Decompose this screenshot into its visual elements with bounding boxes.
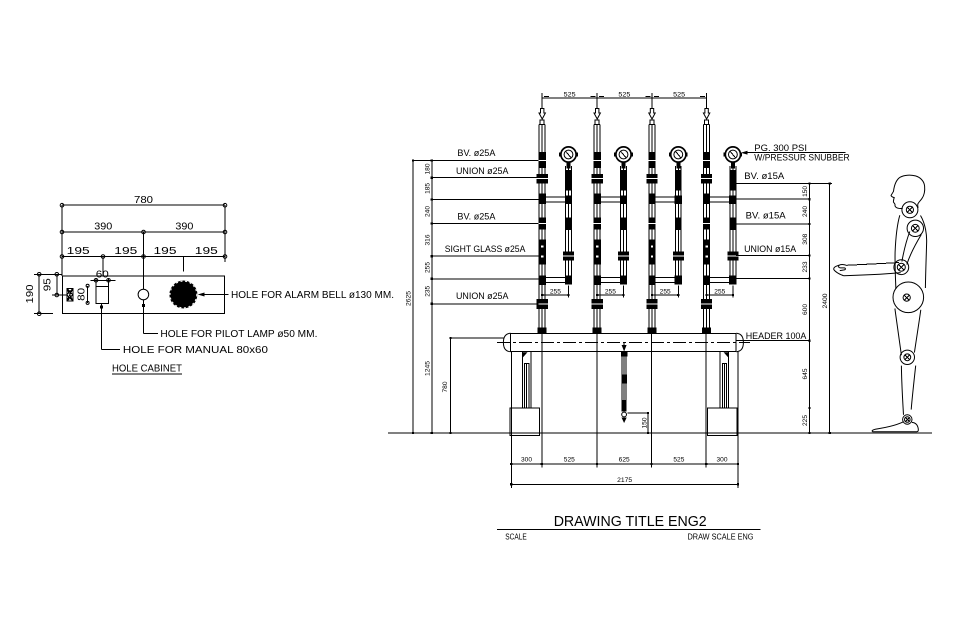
elbow joint xyxy=(894,260,909,275)
svg-text:SIGHT GLASS ø25A: SIGHT GLASS ø25A xyxy=(445,244,526,255)
right label line BV15A-2 xyxy=(736,223,810,225)
right pedestal xyxy=(707,408,737,435)
left label line sight glass xyxy=(432,255,539,257)
left label line UNION25A-1 xyxy=(432,177,539,179)
hole for alarm bell disc xyxy=(169,281,197,309)
extension line q3 xyxy=(182,257,184,272)
hip joint xyxy=(893,282,924,313)
TITLE-BLOCK xyxy=(497,514,761,542)
dim 60 xyxy=(90,270,115,287)
svg-text:390: 390 xyxy=(94,222,112,233)
hole for manual rect xyxy=(96,287,109,304)
left dim chain xyxy=(425,159,433,434)
left label line BV25A-2 xyxy=(432,223,539,225)
svg-text:195: 195 xyxy=(195,246,219,257)
svg-text:300: 300 xyxy=(521,457,533,464)
svg-text:308: 308 xyxy=(802,233,809,244)
svg-text:UNION ø25A: UNION ø25A xyxy=(456,166,509,177)
svg-text:525: 525 xyxy=(564,91,576,98)
svg-text:BV. ø15A: BV. ø15A xyxy=(744,171,785,182)
svg-text:180: 180 xyxy=(425,163,432,174)
svg-text:HOLE FOR PILOT LAMP ø50 MM.: HOLE FOR PILOT LAMP ø50 MM. xyxy=(160,329,317,340)
svg-text:80: 80 xyxy=(76,287,87,301)
extension line left xyxy=(61,205,63,276)
right label line BV15A-1 xyxy=(736,183,832,185)
svg-text:525: 525 xyxy=(618,91,630,98)
svg-text:225: 225 xyxy=(802,415,809,426)
right dim chain xyxy=(802,183,811,435)
right label line UNION15A xyxy=(736,255,810,257)
svg-text:780: 780 xyxy=(442,381,449,392)
right leader PG 300 PSI xyxy=(741,143,850,163)
svg-text:185: 185 xyxy=(425,183,432,194)
svg-text:195: 195 xyxy=(114,246,138,257)
svg-text:HOLE FOR ALARM BELL ø130 MM.: HOLE FOR ALARM BELL ø130 MM. xyxy=(231,290,394,301)
hole hatched small xyxy=(67,288,73,301)
leader pilot lamp xyxy=(142,300,318,340)
dim 525 top xyxy=(542,91,706,103)
title underline xyxy=(497,528,761,530)
extension line center xyxy=(143,232,145,289)
svg-text:240: 240 xyxy=(425,206,432,217)
svg-text:DRAW SCALE ENG: DRAW SCALE ENG xyxy=(688,533,754,542)
dim 195 row xyxy=(60,246,227,258)
torso back line xyxy=(921,216,927,289)
hand xyxy=(834,265,847,276)
riser assembly 3 xyxy=(646,95,687,333)
dim 2400 xyxy=(822,183,831,435)
ground line xyxy=(388,432,932,434)
ankle joint xyxy=(903,415,912,424)
svg-text:UNION ø15A: UNION ø15A xyxy=(744,244,797,255)
svg-text:PG. 300 PSI: PG. 300 PSI xyxy=(754,143,807,153)
calf xyxy=(901,366,903,415)
svg-text:233: 233 xyxy=(802,261,809,272)
bottom dim 2175 xyxy=(510,477,739,485)
svg-text:HOLE CABINET: HOLE CABINET xyxy=(112,363,183,375)
upper arm xyxy=(902,232,910,262)
svg-text:525: 525 xyxy=(673,457,685,464)
extension line q1 xyxy=(102,257,104,277)
right label line branch level xyxy=(736,198,810,200)
svg-text:600: 600 xyxy=(802,304,809,315)
svg-text:316: 316 xyxy=(425,234,432,245)
svg-text:BV. ø25A: BV. ø25A xyxy=(457,148,496,159)
svg-text:2175: 2175 xyxy=(617,477,633,484)
dim 190 xyxy=(25,273,63,316)
right label line branch2 level xyxy=(736,278,810,280)
svg-text:UNION ø25A: UNION ø25A xyxy=(456,291,509,302)
svg-text:DRAWING TITLE ENG2: DRAWING TITLE ENG2 xyxy=(554,514,707,530)
hole for pilot lamp circle xyxy=(138,289,149,300)
dim 95 xyxy=(43,273,67,297)
svg-text:525: 525 xyxy=(673,91,685,98)
svg-text:300: 300 xyxy=(717,457,729,464)
header centerline xyxy=(497,341,750,343)
svg-text:645: 645 xyxy=(802,368,809,379)
header body xyxy=(503,333,743,351)
left label line branch level xyxy=(432,199,539,201)
bottom dim extension lines xyxy=(511,334,738,488)
dim 150 drain xyxy=(628,412,650,434)
dim 780 vertical xyxy=(442,337,503,434)
svg-text:190: 190 xyxy=(25,284,36,303)
forearm xyxy=(847,263,899,266)
right leg xyxy=(720,352,728,409)
leader manual xyxy=(100,304,268,357)
left leg xyxy=(523,352,531,409)
extension line right xyxy=(224,205,226,262)
riser assembly 4 xyxy=(701,95,742,333)
svg-text:BV. ø25A: BV. ø25A xyxy=(457,211,496,222)
svg-text:235: 235 xyxy=(425,285,432,296)
svg-text:HOLE FOR MANUAL 80x60: HOLE FOR MANUAL 80x60 xyxy=(123,345,268,356)
svg-text:195: 195 xyxy=(154,246,178,257)
drain assembly xyxy=(621,342,627,423)
svg-text:780: 780 xyxy=(134,195,153,206)
dim 80 xyxy=(76,284,89,304)
thigh xyxy=(895,309,902,356)
svg-text:2400: 2400 xyxy=(822,293,829,308)
svg-text:195: 195 xyxy=(67,246,91,257)
svg-text:150: 150 xyxy=(642,417,649,429)
left pedestal xyxy=(510,408,540,435)
svg-text:2625: 2625 xyxy=(406,291,413,306)
neck joint xyxy=(902,202,918,218)
label hole cabinet xyxy=(112,363,183,375)
dim 390 left xyxy=(60,222,227,234)
svg-text:W/PRESSUR SNUBBER: W/PRESSUR SNUBBER xyxy=(754,153,850,163)
svg-text:240: 240 xyxy=(802,206,809,217)
dim 780 xyxy=(60,195,227,207)
svg-text:255: 255 xyxy=(425,262,432,273)
left label line branch2 level xyxy=(432,278,539,280)
svg-text:150: 150 xyxy=(802,186,809,197)
svg-text:95: 95 xyxy=(43,278,54,292)
svg-text:525: 525 xyxy=(564,457,576,464)
head xyxy=(891,175,925,208)
riser assembly 1 xyxy=(537,95,578,333)
svg-text:60: 60 xyxy=(96,270,110,281)
HUMAN-FIGURE xyxy=(834,175,927,432)
svg-text:390: 390 xyxy=(175,222,193,233)
dim 2625 xyxy=(406,159,414,434)
bottom dim chain 300/525 xyxy=(510,457,739,465)
leader alarm bell xyxy=(198,290,394,301)
foot xyxy=(872,422,918,432)
svg-text:BV. ø15A: BV. ø15A xyxy=(746,211,787,222)
CABINET-DRAWING xyxy=(25,195,394,375)
svg-text:SCALE: SCALE xyxy=(505,533,527,542)
svg-text:1245: 1245 xyxy=(425,361,432,376)
left label line UNION25A-2 xyxy=(432,303,539,305)
left label line BV25A-1 xyxy=(413,159,539,161)
label HEADER 100A xyxy=(736,331,809,342)
torso front line xyxy=(895,215,900,289)
cabinet outline xyxy=(63,276,225,314)
shoulder joint xyxy=(907,220,923,236)
svg-text:625: 625 xyxy=(619,457,631,464)
knee joint xyxy=(900,350,914,364)
riser assembly 2 xyxy=(592,95,633,333)
